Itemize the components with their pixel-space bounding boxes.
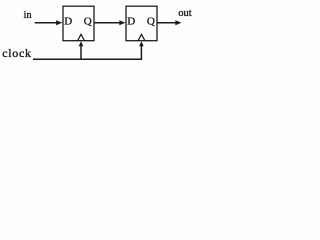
svg-text:D: D [127,16,135,28]
svg-text:out: out [178,8,192,19]
svg-text:in: in [24,10,33,21]
wire clock to U2 clock pin [140,45,142,60]
wire U1 Q to U2 D [95,22,120,24]
svg-text:Q: Q [84,16,92,28]
wire clock bus [33,58,142,60]
svg-text:D: D [64,16,72,28]
clock edge triangle of U1 [78,34,85,40]
flip-flop U2 [126,6,157,41]
svg-text:clock: clock [2,46,32,60]
wire U2 Q to out [158,22,176,24]
wire clock to U1 clock pin [80,45,82,59]
wire in to U1 D input [35,22,57,24]
flip-flop U1 [63,6,94,41]
svg-text:Q: Q [147,16,155,28]
clock edge triangle of U2 [138,34,145,40]
